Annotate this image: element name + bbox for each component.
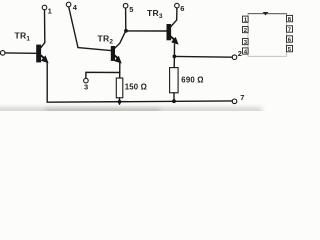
IC notch mark xyxy=(263,12,269,15)
IC pin 2 box xyxy=(243,27,249,33)
svg-text:1: 1 xyxy=(48,7,52,16)
svg-text:150 Ω: 150 Ω xyxy=(125,83,147,92)
svg-text:4: 4 xyxy=(73,3,78,12)
wire TR1 emitter down xyxy=(46,62,48,102)
scan shadow bottom left darker xyxy=(45,108,160,115)
svg-text:6: 6 xyxy=(288,37,292,43)
TR1 emitter with arrow xyxy=(39,53,46,59)
terminal 6 circle xyxy=(175,3,180,8)
wire node A to TR2 collector xyxy=(115,31,126,49)
IC pin 1 box xyxy=(243,16,249,22)
svg-text:7: 7 xyxy=(240,93,244,102)
svg-text:8: 8 xyxy=(288,17,292,23)
transistor TR1 base bar xyxy=(36,45,41,63)
IC pin 5 box xyxy=(287,45,293,51)
svg-text:2: 2 xyxy=(238,49,242,58)
IC pin 6 box xyxy=(287,36,293,42)
wire terminal6 to TR3 collector xyxy=(171,8,177,27)
wire TR1 base xyxy=(5,52,36,54)
terminal 4 circle xyxy=(66,2,71,7)
svg-text:3: 3 xyxy=(84,82,88,91)
wire to TR2 base xyxy=(78,48,111,51)
transistor TR3 base bar xyxy=(167,24,172,40)
background paper xyxy=(0,0,300,111)
terminal 7 circle xyxy=(232,99,237,104)
resistor 690 box xyxy=(170,68,179,93)
IC top edge darker xyxy=(248,13,287,15)
IC pin 4 box xyxy=(243,48,249,54)
IC pin 3 box xyxy=(243,39,249,45)
terminal 5 circle xyxy=(123,3,128,8)
wire terminal1 to TR1 collector xyxy=(41,10,45,48)
transistor TR2 base bar xyxy=(111,46,115,61)
wire node A to TR3 base xyxy=(126,30,167,32)
bottom rail xyxy=(47,101,232,102)
terminal 1 circle xyxy=(42,5,47,10)
wire R690 to rail xyxy=(173,93,175,102)
TR2 emitter with arrow xyxy=(113,54,119,60)
svg-text:1: 1 xyxy=(244,18,248,24)
junction node A dot xyxy=(124,29,128,33)
svg-text:2: 2 xyxy=(244,28,248,34)
svg-text:7: 7 xyxy=(288,27,292,33)
svg-text:4: 4 xyxy=(244,49,248,55)
wire terminal3 up and right to TR2 emitter xyxy=(86,72,120,78)
junction dot R150 rail xyxy=(118,100,122,104)
TR3 emitter with arrow xyxy=(169,35,175,41)
resistor 150 box xyxy=(116,78,123,98)
svg-text:5: 5 xyxy=(129,5,133,14)
wire node B to R690 xyxy=(173,56,175,67)
wire node B to terminal 2 xyxy=(174,55,232,58)
left terminal circle xyxy=(0,51,5,56)
svg-text:5: 5 xyxy=(288,47,292,53)
junction node B dot xyxy=(173,55,177,59)
svg-text:690 Ω: 690 Ω xyxy=(181,76,203,85)
scan shadow bottom xyxy=(0,107,262,115)
junction dot R690 rail xyxy=(172,99,176,103)
wire TR3 emitter down to node B xyxy=(173,44,175,56)
IC package outline top right xyxy=(248,14,287,57)
wire R150 to rail xyxy=(119,98,121,104)
terminal 2 circle xyxy=(232,55,237,60)
wire terminal4 slant down xyxy=(69,7,78,48)
wire TR2 emitter down to R150 xyxy=(119,62,121,78)
IC pin 7 box xyxy=(287,26,293,32)
svg-text:6: 6 xyxy=(180,4,184,13)
wire terminal5 down to node A xyxy=(125,8,127,31)
terminal 3 circle xyxy=(84,78,89,83)
IC pin 8 box xyxy=(287,15,293,21)
svg-text:3: 3 xyxy=(244,40,248,46)
